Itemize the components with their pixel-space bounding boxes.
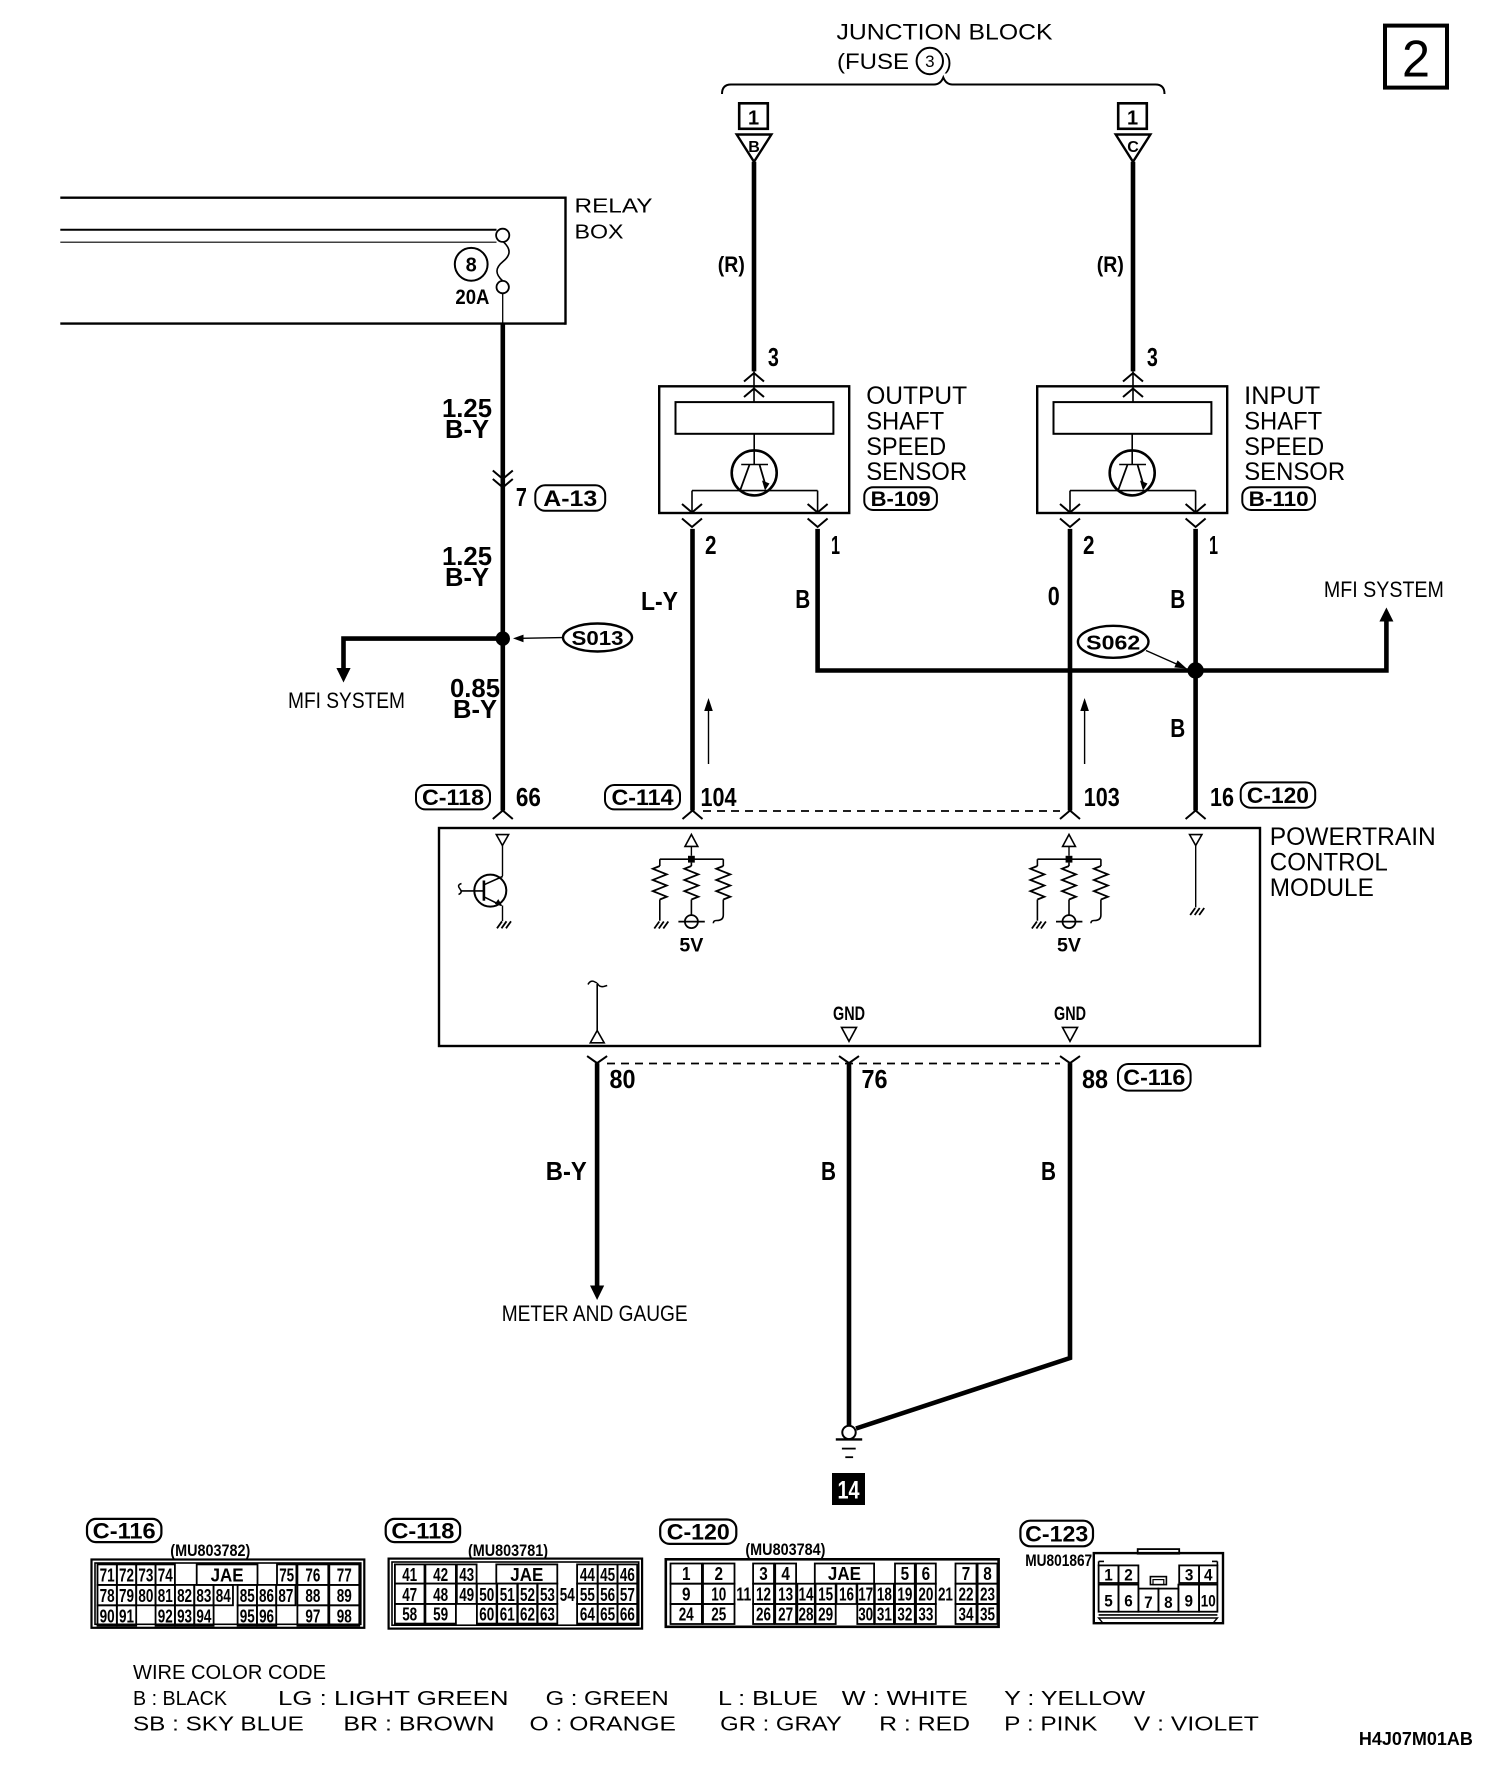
- svg-text:POWERTRAIN: POWERTRAIN: [1270, 823, 1436, 851]
- connector label B-110: [1242, 487, 1315, 510]
- svg-text:MFI SYSTEM: MFI SYSTEM: [1324, 577, 1444, 602]
- latch: [1150, 1577, 1166, 1585]
- chevron at PCM pin 76: [839, 1056, 859, 1063]
- sensor pin 2 chevrons: [682, 504, 702, 513]
- sensor pickup circle symbol: [732, 450, 777, 495]
- chevron at PCM pin 88: [1060, 1056, 1080, 1063]
- svg-text:B-Y: B-Y: [546, 1156, 587, 1186]
- resistor (left, to ground): [1036, 859, 1038, 866]
- svg-text:45: 45: [600, 1565, 615, 1585]
- svg-text:S062: S062: [1086, 633, 1140, 655]
- connector body C-123: [1094, 1553, 1223, 1623]
- svg-text:28: 28: [799, 1605, 814, 1625]
- svg-text:P : PINK: P : PINK: [1004, 1713, 1098, 1736]
- svg-text:49: 49: [459, 1585, 474, 1605]
- svg-text:13: 13: [778, 1585, 793, 1605]
- svg-text:33: 33: [918, 1605, 933, 1625]
- svg-text:8: 8: [1164, 1593, 1173, 1612]
- svg-text:1: 1: [748, 108, 759, 130]
- svg-text:(MU803782): (MU803782): [170, 1542, 250, 1560]
- sensor internal bottom connector line: [692, 490, 818, 492]
- svg-text:SHAFT: SHAFT: [1244, 407, 1322, 435]
- svg-text:(MU803784): (MU803784): [745, 1541, 825, 1559]
- svg-text:88: 88: [1082, 1064, 1108, 1094]
- body ground terminal circle: [842, 1426, 855, 1439]
- svg-text:MU801867: MU801867: [1025, 1552, 1092, 1570]
- connector table C-120: [660, 1520, 736, 1544]
- svg-text:7: 7: [1144, 1593, 1153, 1612]
- svg-text:61: 61: [500, 1605, 515, 1625]
- resistor (middle, to 5V): [1068, 863, 1070, 866]
- svg-text:91: 91: [119, 1606, 134, 1626]
- svg-text:35: 35: [980, 1605, 995, 1625]
- svg-text:INPUT: INPUT: [1244, 382, 1320, 410]
- svg-text:(R): (R): [718, 252, 745, 277]
- svg-text:81: 81: [158, 1586, 173, 1606]
- svg-text:14: 14: [838, 1477, 860, 1505]
- svg-text:B: B: [795, 584, 810, 614]
- svg-text:86: 86: [259, 1586, 274, 1606]
- svg-text:1: 1: [831, 530, 840, 560]
- svg-text:32: 32: [897, 1605, 912, 1625]
- svg-text:53: 53: [540, 1585, 555, 1605]
- signal direction arrow (pin 103): [1084, 702, 1086, 764]
- svg-text:1: 1: [1209, 530, 1218, 560]
- svg-text:B : BLACK: B : BLACK: [133, 1687, 227, 1710]
- svg-text:34: 34: [959, 1605, 974, 1625]
- svg-text:JAE: JAE: [510, 1565, 543, 1585]
- svg-text:BR : BROWN: BR : BROWN: [343, 1713, 494, 1736]
- dashed connector grouping line (pins 80-88): [607, 1063, 1060, 1065]
- wire B from PCM pin 88 to body ground 14: [856, 1063, 1070, 1428]
- svg-text:73: 73: [138, 1566, 153, 1586]
- svg-text:): ): [945, 49, 952, 74]
- svg-text:MFI SYSTEM: MFI SYSTEM: [288, 688, 405, 713]
- splice label S062 with arrow: [1078, 626, 1149, 658]
- svg-text:C-116: C-116: [1123, 1065, 1185, 1090]
- sensor pin 1 chevrons: [1186, 504, 1206, 513]
- svg-text:B-Y: B-Y: [453, 694, 497, 724]
- PCM internal: open triangle (sensor input): [1063, 835, 1076, 847]
- svg-text:48: 48: [433, 1585, 448, 1605]
- wire B from B-110 pin 1 through splice S062 to PCM pin 16: [1193, 529, 1198, 811]
- relay box bus bar lines: [60, 229, 496, 231]
- svg-text:97: 97: [305, 1606, 320, 1626]
- svg-text:9: 9: [1185, 1592, 1194, 1611]
- svg-text:METER AND GAUGE: METER AND GAUGE: [502, 1301, 688, 1326]
- svg-text:54: 54: [560, 1585, 575, 1605]
- svg-text:17: 17: [858, 1585, 873, 1605]
- svg-text:20A: 20A: [455, 286, 489, 309]
- svg-text:71: 71: [100, 1566, 115, 1586]
- svg-text:5: 5: [1104, 1592, 1113, 1611]
- 5V reference source: [685, 915, 698, 928]
- svg-text:Y : YELLOW: Y : YELLOW: [1004, 1687, 1146, 1710]
- sensor internal bottom connector line: [1070, 490, 1196, 492]
- svg-text:62: 62: [520, 1605, 535, 1625]
- svg-text:77: 77: [337, 1566, 352, 1586]
- svg-text:1: 1: [682, 1564, 691, 1584]
- resistor (left, to ground): [659, 859, 661, 866]
- svg-text:GND: GND: [1054, 1004, 1086, 1025]
- svg-text:3: 3: [925, 52, 934, 71]
- svg-text:LG : LIGHT GREEN: LG : LIGHT GREEN: [278, 1687, 509, 1710]
- pin lead into sensor B-109: [753, 371, 755, 403]
- page number box 2: [1385, 26, 1447, 88]
- svg-text:SENSOR: SENSOR: [866, 458, 967, 486]
- svg-text:2: 2: [1083, 530, 1095, 560]
- splice label S013 with arrow: [563, 624, 632, 652]
- svg-text:5V: 5V: [679, 936, 703, 957]
- connector label B-109: [864, 487, 937, 510]
- ground reference number 14 (black box): [832, 1473, 865, 1505]
- svg-text:L : BLUE: L : BLUE: [718, 1687, 818, 1710]
- svg-text:14: 14: [799, 1585, 814, 1605]
- svg-text:23: 23: [980, 1585, 995, 1605]
- svg-text:GR : GRAY: GR : GRAY: [720, 1713, 842, 1736]
- svg-text:C-123: C-123: [1025, 1521, 1088, 1546]
- svg-text:42: 42: [433, 1565, 448, 1585]
- svg-text:16: 16: [1210, 782, 1234, 812]
- svg-text:58: 58: [402, 1605, 417, 1625]
- svg-text:76: 76: [862, 1064, 888, 1094]
- svg-text:C-114: C-114: [612, 785, 675, 810]
- svg-text:3: 3: [759, 1564, 768, 1584]
- svg-text:9: 9: [682, 1585, 691, 1605]
- input shaft speed sensor B-110: [1037, 386, 1227, 513]
- svg-text:75: 75: [279, 1566, 294, 1586]
- svg-text:G : GREEN: G : GREEN: [546, 1687, 669, 1710]
- svg-text:52: 52: [520, 1585, 535, 1605]
- svg-text:B-Y: B-Y: [445, 562, 489, 592]
- ground (pin 16 internal): [1190, 908, 1195, 915]
- svg-text:93: 93: [177, 1606, 192, 1626]
- svg-text:11: 11: [736, 1585, 751, 1605]
- svg-text:8: 8: [466, 255, 477, 277]
- PCM internal: open triangle at pin 16: [1190, 835, 1202, 846]
- sensor pin 2 chevrons: [1060, 504, 1080, 513]
- svg-text:64: 64: [580, 1605, 595, 1625]
- svg-text:30: 30: [858, 1605, 873, 1625]
- open triangle GND (pin 88): [1063, 1027, 1078, 1041]
- svg-text:47: 47: [402, 1585, 417, 1605]
- svg-text:44: 44: [580, 1565, 595, 1585]
- svg-text:BOX: BOX: [575, 221, 624, 244]
- svg-text:1: 1: [1127, 108, 1138, 130]
- connector table C-118: [386, 1519, 460, 1542]
- svg-text:16: 16: [839, 1585, 854, 1605]
- svg-text:O : ORANGE: O : ORANGE: [530, 1713, 677, 1736]
- 5V reference source: [1063, 915, 1076, 928]
- svg-text:2: 2: [715, 1564, 724, 1584]
- JAE maker box: [197, 1564, 258, 1585]
- svg-text:OUTPUT: OUTPUT: [866, 382, 967, 410]
- svg-text:80: 80: [610, 1064, 636, 1094]
- svg-text:B: B: [1170, 584, 1185, 614]
- svg-text:JUNCTION BLOCK: JUNCTION BLOCK: [837, 20, 1053, 45]
- svg-text:24: 24: [679, 1605, 694, 1625]
- connector label C-118 (pin 66): [416, 785, 490, 809]
- svg-text:57: 57: [620, 1585, 635, 1605]
- svg-text:B: B: [748, 139, 760, 156]
- svg-text:50: 50: [479, 1585, 494, 1605]
- wire B-Y from PCM pin 80 to meter and gauge: [595, 1063, 600, 1286]
- svg-text:60: 60: [479, 1605, 494, 1625]
- svg-text:41: 41: [402, 1565, 417, 1585]
- powertrain control module box: [439, 828, 1260, 1046]
- transistor Q (PCM output driver): [474, 875, 506, 907]
- svg-text:43: 43: [459, 1565, 474, 1585]
- svg-text:4: 4: [781, 1564, 790, 1584]
- branch wire to MFI SYSTEM (left): [344, 639, 503, 668]
- svg-text:22: 22: [959, 1585, 974, 1605]
- svg-text:63: 63: [540, 1605, 555, 1625]
- dashed connector grouping line (pins 104-103): [703, 810, 1060, 812]
- svg-text:15: 15: [818, 1585, 833, 1605]
- svg-text:59: 59: [433, 1605, 448, 1625]
- svg-text:10: 10: [711, 1585, 726, 1605]
- arrow to MFI SYSTEM (right): [1379, 608, 1393, 622]
- output shaft speed sensor B-109: [659, 386, 849, 513]
- connector label A-13: [535, 485, 605, 511]
- wire B from B-109 pin 1 to splice S062: [818, 529, 1387, 671]
- svg-text:B-109: B-109: [871, 488, 931, 511]
- resistor (right, to internal circuit): [722, 859, 724, 866]
- svg-text:4: 4: [1204, 1566, 1213, 1585]
- PCM internal: coil/链 symbol above pin 80: [588, 981, 597, 984]
- svg-text:2: 2: [1124, 1566, 1133, 1585]
- svg-text:103: 103: [1084, 782, 1120, 812]
- fuse 8 circle: [455, 248, 488, 281]
- svg-text:55: 55: [580, 1585, 595, 1605]
- svg-text:B: B: [1170, 713, 1185, 743]
- svg-text:S013: S013: [572, 628, 624, 650]
- node (junction square): [688, 856, 695, 863]
- svg-text:27: 27: [778, 1605, 793, 1625]
- svg-text:10: 10: [1201, 1592, 1216, 1611]
- svg-text:29: 29: [818, 1605, 833, 1625]
- resistor (middle, to 5V): [690, 863, 692, 866]
- svg-text:SB : SKY BLUE: SB : SKY BLUE: [133, 1713, 304, 1736]
- connector terminal 1-B (junction block fuse output, left): [739, 103, 768, 129]
- svg-text:H4J07M01AB: H4J07M01AB: [1359, 1729, 1473, 1749]
- svg-text:19: 19: [897, 1585, 912, 1605]
- svg-text:82: 82: [177, 1586, 192, 1606]
- svg-text:SPEED: SPEED: [866, 433, 946, 461]
- svg-text:104: 104: [701, 782, 737, 812]
- svg-text:(R): (R): [1097, 252, 1124, 277]
- svg-text:7: 7: [962, 1564, 971, 1584]
- splice S013 junction dot: [496, 631, 510, 645]
- svg-text:65: 65: [600, 1605, 615, 1625]
- svg-text:7: 7: [516, 482, 527, 512]
- wire O from B-110 pin 2 to PCM pin 103: [1068, 529, 1073, 811]
- sensor pin 1 chevrons: [808, 504, 828, 513]
- relay box: [60, 196, 565, 198]
- svg-text:WIRE COLOR CODE: WIRE COLOR CODE: [133, 1661, 326, 1684]
- svg-text:C-120: C-120: [667, 1520, 730, 1545]
- svg-text:26: 26: [756, 1605, 771, 1625]
- svg-text:R : RED: R : RED: [879, 1713, 970, 1736]
- svg-text:(MU803781): (MU803781): [468, 1542, 548, 1560]
- junction block brace: [722, 78, 1165, 95]
- svg-text:76: 76: [305, 1566, 320, 1586]
- svg-text:74: 74: [158, 1566, 173, 1586]
- svg-text:2: 2: [705, 530, 717, 560]
- svg-text:46: 46: [620, 1565, 635, 1585]
- svg-text:31: 31: [877, 1605, 892, 1625]
- svg-text:87: 87: [278, 1586, 293, 1606]
- svg-text:89: 89: [337, 1586, 352, 1606]
- svg-text:21: 21: [938, 1585, 953, 1605]
- svg-text:B-Y: B-Y: [445, 414, 489, 444]
- wire (R) from terminal C down to input shaft speed sensor pin 3: [1131, 162, 1136, 372]
- svg-text:94: 94: [196, 1606, 211, 1626]
- PCM internal: open triangle at pin 66: [496, 835, 508, 846]
- svg-text:5: 5: [901, 1564, 910, 1584]
- svg-text:20: 20: [918, 1585, 933, 1605]
- svg-text:8: 8: [983, 1564, 992, 1584]
- svg-text:56: 56: [600, 1585, 615, 1605]
- resistor (right, to internal circuit): [1100, 859, 1102, 866]
- svg-text:SPEED: SPEED: [1244, 433, 1324, 461]
- signal direction arrow (pin 104): [708, 702, 710, 764]
- svg-text:A-13: A-13: [543, 486, 597, 511]
- svg-text:C-116: C-116: [93, 1518, 156, 1543]
- svg-text:98: 98: [337, 1606, 352, 1626]
- svg-text:25: 25: [711, 1605, 726, 1625]
- svg-text:CONTROL: CONTROL: [1270, 848, 1388, 876]
- svg-text:92: 92: [158, 1606, 173, 1626]
- svg-text:GND: GND: [833, 1004, 865, 1025]
- svg-text:5V: 5V: [1057, 936, 1081, 957]
- svg-text:80: 80: [138, 1586, 153, 1606]
- svg-text:MODULE: MODULE: [1270, 874, 1374, 902]
- sensor inner element box: [1054, 402, 1212, 434]
- svg-text:2: 2: [1402, 31, 1430, 89]
- connector label C-114 (pin 104): [605, 785, 680, 809]
- connector label C-120 (pin 16): [1241, 782, 1316, 807]
- PCM internal: collector wire: [502, 846, 504, 877]
- splice S062 junction dot: [1187, 662, 1203, 678]
- chevron at PCM pin 16: [1186, 811, 1206, 820]
- svg-text:C-118: C-118: [422, 785, 484, 810]
- svg-text:JAE: JAE: [828, 1564, 861, 1584]
- svg-text:3: 3: [1185, 1566, 1194, 1585]
- svg-text:84: 84: [216, 1586, 231, 1606]
- svg-text:66: 66: [620, 1605, 635, 1625]
- svg-text:1: 1: [1104, 1566, 1113, 1585]
- svg-text:95: 95: [240, 1606, 255, 1626]
- svg-text:RELAY: RELAY: [575, 195, 653, 218]
- svg-text:L-Y: L-Y: [641, 586, 678, 616]
- connector table C-116: [87, 1519, 161, 1542]
- svg-text:85: 85: [240, 1586, 255, 1606]
- svg-text:(FUSE: (FUSE: [837, 49, 909, 74]
- svg-text:SHAFT: SHAFT: [866, 407, 944, 435]
- earth ground bars: [836, 1438, 862, 1440]
- svg-text:SENSOR: SENSOR: [1244, 458, 1345, 486]
- sensor pickup circle symbol: [1110, 450, 1155, 495]
- pin lead into sensor B-110: [1132, 371, 1134, 403]
- svg-text:JAE: JAE: [211, 1566, 244, 1586]
- chevron at PCM pin 66: [493, 811, 513, 820]
- svg-text:V : VIOLET: V : VIOLET: [1134, 1713, 1260, 1736]
- JAE maker box: [815, 1564, 874, 1584]
- fuse element (wavy) with terminals: [496, 229, 509, 242]
- svg-text:88: 88: [305, 1586, 320, 1606]
- svg-text:72: 72: [119, 1566, 134, 1586]
- svg-text:C: C: [1127, 139, 1139, 156]
- connector C-123: [1020, 1521, 1093, 1547]
- svg-text:B: B: [1041, 1156, 1056, 1186]
- svg-text:66: 66: [516, 782, 541, 812]
- svg-text:90: 90: [100, 1606, 115, 1626]
- svg-text:W : WHITE: W : WHITE: [842, 1687, 968, 1710]
- svg-text:B-110: B-110: [1249, 488, 1309, 511]
- sensor inner element box: [676, 402, 834, 434]
- wire 1.25 B-Y from relay box fuse down: [500, 324, 505, 811]
- svg-text:18: 18: [877, 1585, 892, 1605]
- svg-text:3: 3: [1147, 342, 1158, 372]
- PCM internal: open triangle at pin 80: [590, 1031, 604, 1043]
- svg-text:B: B: [821, 1156, 836, 1186]
- svg-text:78: 78: [100, 1586, 115, 1606]
- wire L-Y from B-109 pin 2 to PCM pin 104: [690, 529, 695, 811]
- PCM internal: open triangle (sensor input): [685, 835, 698, 847]
- svg-text:0: 0: [1048, 581, 1060, 611]
- in-line connector A-13 chevrons: [493, 471, 513, 480]
- svg-text:83: 83: [196, 1586, 211, 1606]
- svg-text:79: 79: [119, 1586, 134, 1606]
- JAE maker box: [496, 1564, 557, 1583]
- ground (transistor emitter): [497, 921, 502, 928]
- open triangle GND (pin 76): [842, 1027, 857, 1041]
- svg-text:3: 3: [768, 342, 779, 372]
- node (junction square): [1066, 856, 1073, 863]
- svg-text:C-118: C-118: [391, 1518, 454, 1543]
- svg-text:96: 96: [259, 1606, 274, 1626]
- chevron at PCM pin 103: [1060, 811, 1080, 820]
- svg-text:12: 12: [756, 1585, 771, 1605]
- chevron at PCM pin 80: [587, 1056, 607, 1063]
- wire (R) from terminal B down to output shaft speed sensor pin 3: [752, 162, 757, 372]
- connector terminal 1-C (junction block fuse output, right): [1118, 103, 1147, 129]
- svg-text:C-120: C-120: [1247, 783, 1309, 808]
- wire B from PCM pin 76 to body ground 14: [847, 1063, 852, 1426]
- connector label C-116 (pins 80/76/88): [1118, 1064, 1191, 1091]
- svg-text:6: 6: [922, 1564, 931, 1584]
- svg-text:51: 51: [500, 1585, 515, 1605]
- chevron at PCM pin 104: [683, 811, 703, 820]
- svg-text:6: 6: [1124, 1592, 1133, 1611]
